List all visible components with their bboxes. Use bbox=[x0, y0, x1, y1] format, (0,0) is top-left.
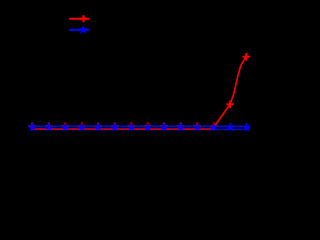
red plus marker x1 bbox=[29, 123, 37, 131]
red plus marker x9 bbox=[160, 123, 168, 131]
blue star marker x8 bbox=[144, 124, 151, 131]
legend red sample line bbox=[69, 18, 89, 20]
blue star marker x10 bbox=[177, 124, 184, 131]
red series flat segment bbox=[32, 128, 213, 130]
blue star marker x9 bbox=[161, 124, 168, 131]
blue star marker x1 bbox=[29, 124, 36, 131]
blue star marker x6 bbox=[111, 124, 118, 131]
blue star marker x14 bbox=[243, 124, 250, 131]
red plus marker x6 bbox=[111, 123, 119, 131]
blue star marker x12 bbox=[210, 124, 217, 131]
blue star marker x3 bbox=[62, 124, 69, 131]
legend red plus marker bbox=[80, 15, 87, 22]
red plus marker x2 bbox=[45, 123, 53, 131]
legend blue sample line bbox=[69, 29, 89, 31]
red plus marker x14 (top end) bbox=[243, 53, 251, 61]
legend blue star marker bbox=[80, 26, 87, 33]
red plus marker x11 bbox=[193, 123, 201, 131]
blue star marker x7 bbox=[128, 124, 135, 131]
blue star marker x2 bbox=[45, 124, 52, 131]
red plus marker x8 bbox=[144, 123, 152, 131]
blue series upper line bbox=[32, 125, 246, 127]
red plus marker x4 bbox=[78, 123, 86, 131]
red plus marker x7 bbox=[127, 123, 135, 131]
red series rising segment bbox=[213, 57, 247, 129]
red plus marker x10 bbox=[177, 123, 185, 131]
red plus marker x3 bbox=[61, 123, 69, 131]
blue series lower line bbox=[32, 129, 246, 131]
blue star marker x4 bbox=[78, 124, 85, 131]
red plus marker x5 bbox=[94, 123, 102, 131]
red plus marker x13 (rising) bbox=[226, 100, 234, 108]
blue star marker x11 bbox=[194, 124, 201, 131]
blue star marker x5 bbox=[95, 124, 102, 131]
blue star marker x13 bbox=[227, 124, 234, 131]
red plus marker x12 bbox=[210, 123, 218, 131]
